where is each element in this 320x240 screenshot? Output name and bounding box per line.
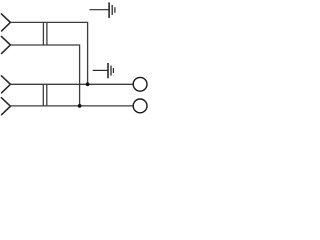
wire W2 (from P2 right then down to junction B): [10, 45, 79, 106]
wire W4 (from P4 to output J2): [10, 105, 133, 107]
output connector J1 (circle, top): [133, 77, 147, 91]
ground GND2 (rotated earth symbol, middle right): [93, 63, 114, 78]
capacitor C1 plate 2: [46, 22, 48, 45]
connector P1 (input chevron, top): [1, 14, 10, 31]
capacitor C1 plate 1: [42, 22, 44, 45]
capacitor C2 plate 1: [42, 84, 44, 106]
wire W3 (from P3 to output J1): [10, 83, 133, 85]
output connector J2 (circle, bottom): [133, 99, 147, 113]
connector P3 (input chevron): [1, 76, 10, 93]
connector P4 (input chevron, bottom): [1, 98, 10, 115]
capacitor C2 plate 2: [46, 84, 48, 106]
wire W1 (from P1 right then down to junction A): [10, 22, 87, 84]
junction A (W1 joins W3): [86, 82, 90, 86]
ground GND1 (rotated earth symbol, top right): [90, 2, 115, 18]
junction B (W2 joins W4): [78, 104, 82, 108]
connector P2 (input chevron): [1, 36, 10, 53]
